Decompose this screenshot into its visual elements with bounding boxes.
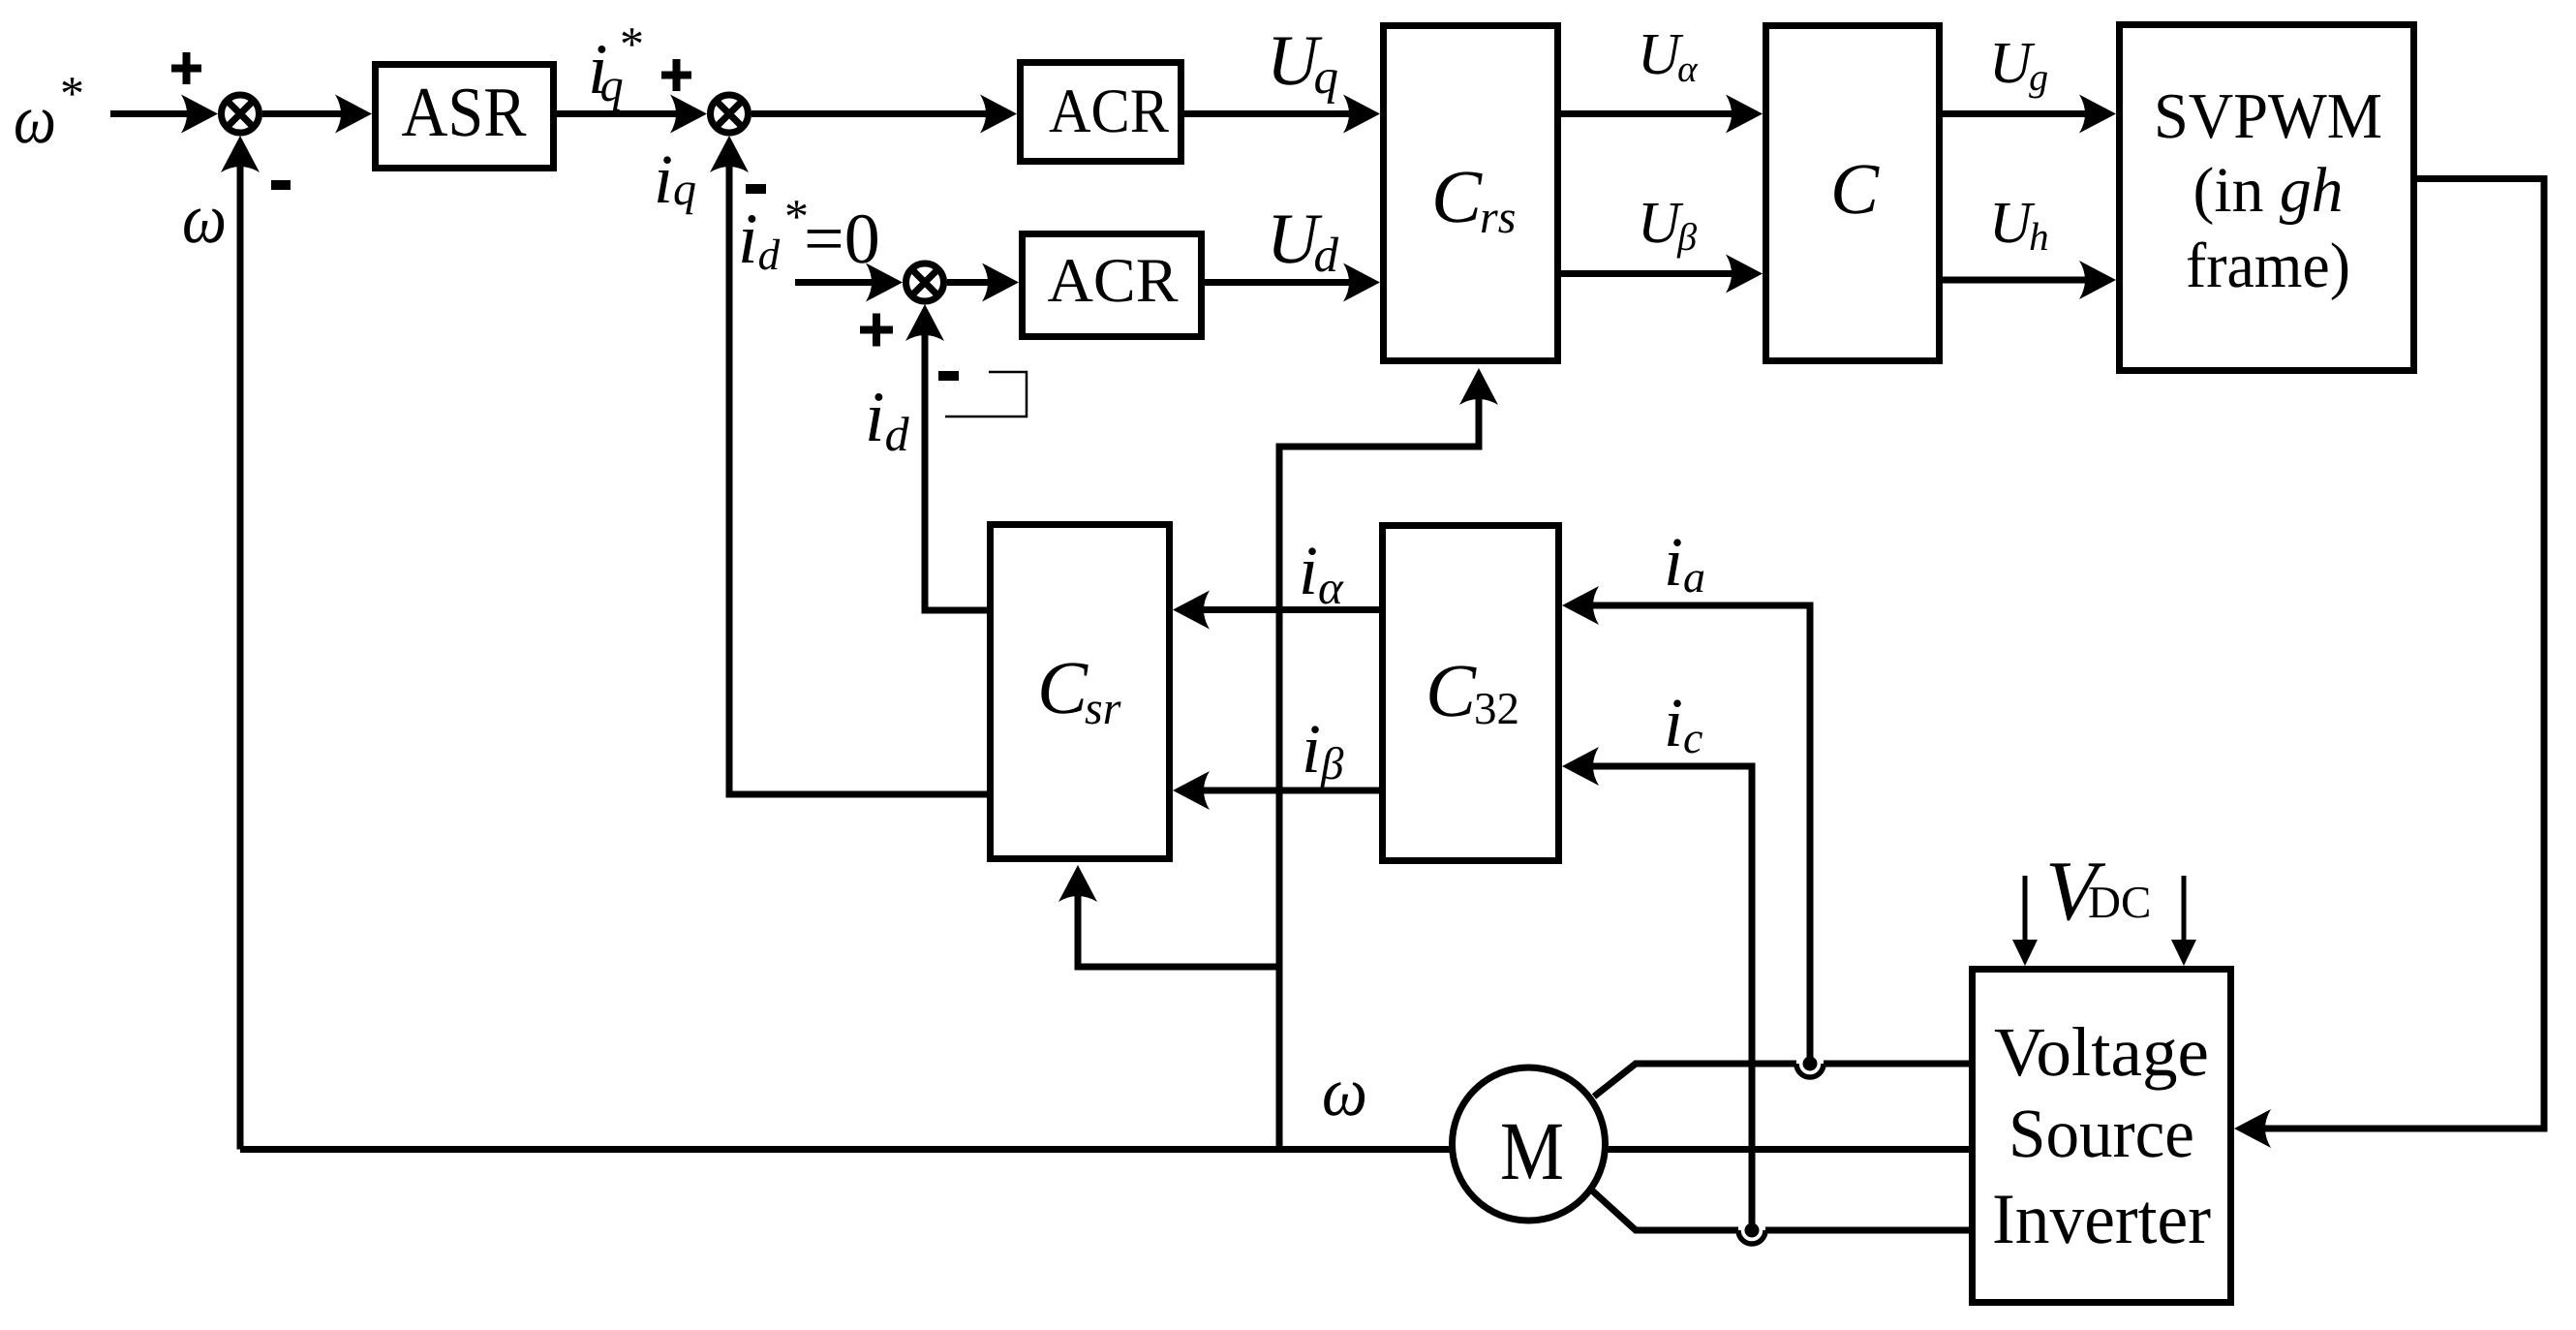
wire ia sense from phase a <box>1584 605 1810 1059</box>
wire iq feedback Csr to junction2 <box>729 158 987 794</box>
summing junction 2 <box>711 95 749 133</box>
wire phase top M to VSI <box>1594 1064 1796 1097</box>
arrowhead ia into C32 <box>1562 586 1599 625</box>
wire Uh C to SVPWM <box>1943 277 2094 284</box>
tap hop arc phase a <box>1796 1064 1824 1077</box>
wire junction2 to ACR1 <box>751 110 996 117</box>
svg-text:frame): frame) <box>2186 231 2350 301</box>
block VSI <box>1973 970 2231 1303</box>
arrowhead into junction3 <box>866 263 903 302</box>
wire omega tap to Csr bottom <box>1078 887 1279 967</box>
svg-text:Source: Source <box>2009 1095 2194 1172</box>
arrowhead into ACR1 <box>980 95 1017 134</box>
wire junction3 to ACR2 <box>947 279 997 286</box>
wire Ualpha Crs to C <box>1561 110 1740 117</box>
arrowhead Ualpha into C <box>1726 95 1763 134</box>
svg-text:M: M <box>1500 1104 1564 1197</box>
wire feedback left vertical to junction1 <box>237 158 244 1150</box>
arrowhead into ASR <box>335 95 372 134</box>
wire phase bottom after tap <box>1765 1227 1969 1234</box>
arrowhead Ug into SVPWM <box>2079 95 2116 134</box>
tap dot phase c <box>1745 1223 1760 1238</box>
svg-text:SVPWM: SVPWM <box>2154 80 2382 152</box>
summing junction 3 <box>906 263 944 301</box>
tap hop arc phase c <box>1738 1230 1765 1244</box>
svg-text:Inverter: Inverter <box>1992 1180 2211 1259</box>
svg-text:*: * <box>60 66 84 120</box>
block ACR1 <box>1021 63 1181 162</box>
svg-text:*: * <box>620 16 644 71</box>
arrowhead up into junction3 <box>905 304 944 341</box>
wire ibeta C32 to Csr <box>1195 788 1379 794</box>
plus sign junction1 <box>171 52 201 84</box>
arrowhead feedback into VSI <box>2234 1109 2271 1148</box>
wire VDC arrow stem left <box>2023 876 2028 944</box>
block ASR <box>376 65 554 169</box>
wire bottom feedback horizontal <box>240 1146 1453 1153</box>
plus sign junction3 <box>860 314 893 347</box>
arrowhead into junction2 <box>670 95 707 134</box>
minus sign junction3 <box>938 371 959 381</box>
wire omega vertical to Crs <box>1279 390 1479 1150</box>
svg-text:=0: =0 <box>804 200 880 279</box>
arrowhead Uq into Crs <box>1343 95 1380 134</box>
plus sign junction2 <box>661 59 691 91</box>
block Crs <box>1384 26 1558 361</box>
arrowhead into ACR2 <box>982 263 1019 302</box>
wire SVPWM output feedback to VSI <box>2256 179 2544 1129</box>
svg-text:(in gh: (in gh <box>2193 155 2344 226</box>
summing junction 1 <box>222 95 260 133</box>
limiter symbol below junction3 <box>945 372 1027 417</box>
arrowhead ic into C32 <box>1562 747 1599 786</box>
minus sign junction2 <box>746 184 766 194</box>
arrowhead VDC left <box>2012 940 2038 966</box>
tap dot phase a <box>1803 1057 1818 1071</box>
svg-text:ω: ω <box>1322 1053 1367 1130</box>
block Csr <box>991 525 1170 859</box>
wire Ud ACR2 to Crs <box>1205 279 1358 286</box>
wire omega* input <box>110 110 194 117</box>
arrowhead Ubeta into C <box>1726 255 1763 294</box>
arrowhead ialpha into Csr <box>1173 591 1210 630</box>
wire phase top after tap <box>1824 1061 1969 1067</box>
svg-text:DC: DC <box>2088 878 2151 928</box>
wire Ug C to SVPWM <box>1943 110 2094 117</box>
wire Uq ACR1 to Crs <box>1184 110 1358 117</box>
arrowhead Uh into SVPWM <box>2079 261 2116 299</box>
wire id feedback Csr to junction3 <box>925 326 987 610</box>
wire ic sense from phase c <box>1584 766 1752 1225</box>
wire ASR to junction2 <box>557 110 686 117</box>
svg-text:ACR: ACR <box>1049 77 1170 146</box>
svg-text:Voltage: Voltage <box>1994 1013 2209 1091</box>
block SVPWM <box>2120 25 2414 371</box>
svg-text:ω: ω <box>14 80 56 158</box>
arrowhead up into junction1 <box>221 136 260 172</box>
arrowhead into junction1 <box>181 95 218 134</box>
arrowhead Ud into Crs <box>1343 263 1380 302</box>
wire id*=0 into junction3 <box>795 279 880 286</box>
arrowhead ibeta into Csr <box>1173 771 1210 810</box>
svg-text:ω: ω <box>182 179 227 259</box>
wire phase bottom M to VSI <box>1592 1191 1738 1230</box>
wire Ubeta Crs to C <box>1561 270 1740 277</box>
block C <box>1766 26 1940 361</box>
arrowhead up into Crs bottom <box>1459 368 1498 405</box>
svg-text:ASR: ASR <box>402 73 527 151</box>
wire junction1 to ASR <box>262 110 349 117</box>
wire ialpha C32 to Csr <box>1195 606 1379 613</box>
block ACR2 <box>1023 234 1202 337</box>
minus sign junction1 <box>271 180 291 190</box>
wire phase mid M to VSI <box>1608 1146 1969 1153</box>
block C32 <box>1383 526 1559 861</box>
arrowhead up into junction2 <box>710 136 749 172</box>
svg-text:C: C <box>1830 149 1880 230</box>
svg-text:ACR: ACR <box>1048 246 1180 316</box>
wire VDC arrow stem right <box>2182 876 2187 944</box>
arrowhead VDC right <box>2171 940 2196 966</box>
motor M circle <box>1453 1067 1606 1221</box>
arrowhead up into Csr bottom <box>1058 865 1097 902</box>
